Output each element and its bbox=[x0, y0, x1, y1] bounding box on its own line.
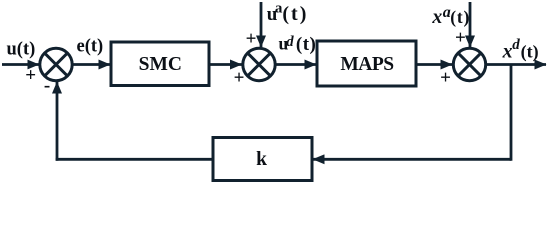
wire SMC to summing junction S2 bbox=[209, 63, 242, 66]
svg-text:+: + bbox=[455, 28, 466, 49]
summing junction S2 (circle with X) bbox=[243, 48, 275, 80]
svg-text:+: + bbox=[440, 68, 451, 89]
svg-text:SMC: SMC bbox=[139, 54, 182, 75]
wire u^a(t) vertical input into S2 bbox=[260, 2, 263, 47]
svg-text:k: k bbox=[256, 149, 267, 170]
summing junction S1 (circle with X) bbox=[40, 48, 72, 80]
svg-text:ua(t): ua(t) bbox=[267, 1, 309, 25]
wire u^d(t) from S2 to MAPS bbox=[277, 63, 317, 66]
svg-text:MAPS: MAPS bbox=[340, 54, 394, 75]
svg-text:u(t): u(t) bbox=[7, 40, 36, 60]
summing junction S3 (circle with X) bbox=[453, 48, 485, 80]
wire e(t) from S1 to SMC bbox=[73, 63, 110, 66]
block MAPS bbox=[317, 41, 416, 86]
wire u(t) input arrow into summing junction S1 bbox=[2, 63, 39, 66]
svg-text:+: + bbox=[246, 29, 257, 50]
block SMC bbox=[111, 42, 209, 86]
svg-text:e(t): e(t) bbox=[77, 37, 104, 57]
svg-text:xd(t): xd(t) bbox=[502, 37, 539, 62]
svg-text:+: + bbox=[25, 65, 36, 86]
wire feedback bottom left from k block bbox=[56, 158, 213, 161]
wire feedback bottom right into k block bbox=[313, 158, 511, 161]
svg-text:-: - bbox=[44, 75, 50, 96]
wire x^d(t) output arrow bbox=[487, 63, 546, 66]
block k bbox=[213, 138, 312, 181]
svg-text:+: + bbox=[234, 68, 245, 89]
svg-text:ud(t): ud(t) bbox=[279, 34, 317, 55]
svg-text:xa(t): xa(t) bbox=[431, 4, 470, 28]
wire feedback vertical up into S1 bbox=[56, 82, 59, 161]
wire feedback branch vertical down from output node bbox=[510, 65, 513, 161]
wire MAPS to summing junction S3 bbox=[416, 63, 452, 66]
wire x^a(t) vertical input into S3 bbox=[469, 2, 472, 47]
